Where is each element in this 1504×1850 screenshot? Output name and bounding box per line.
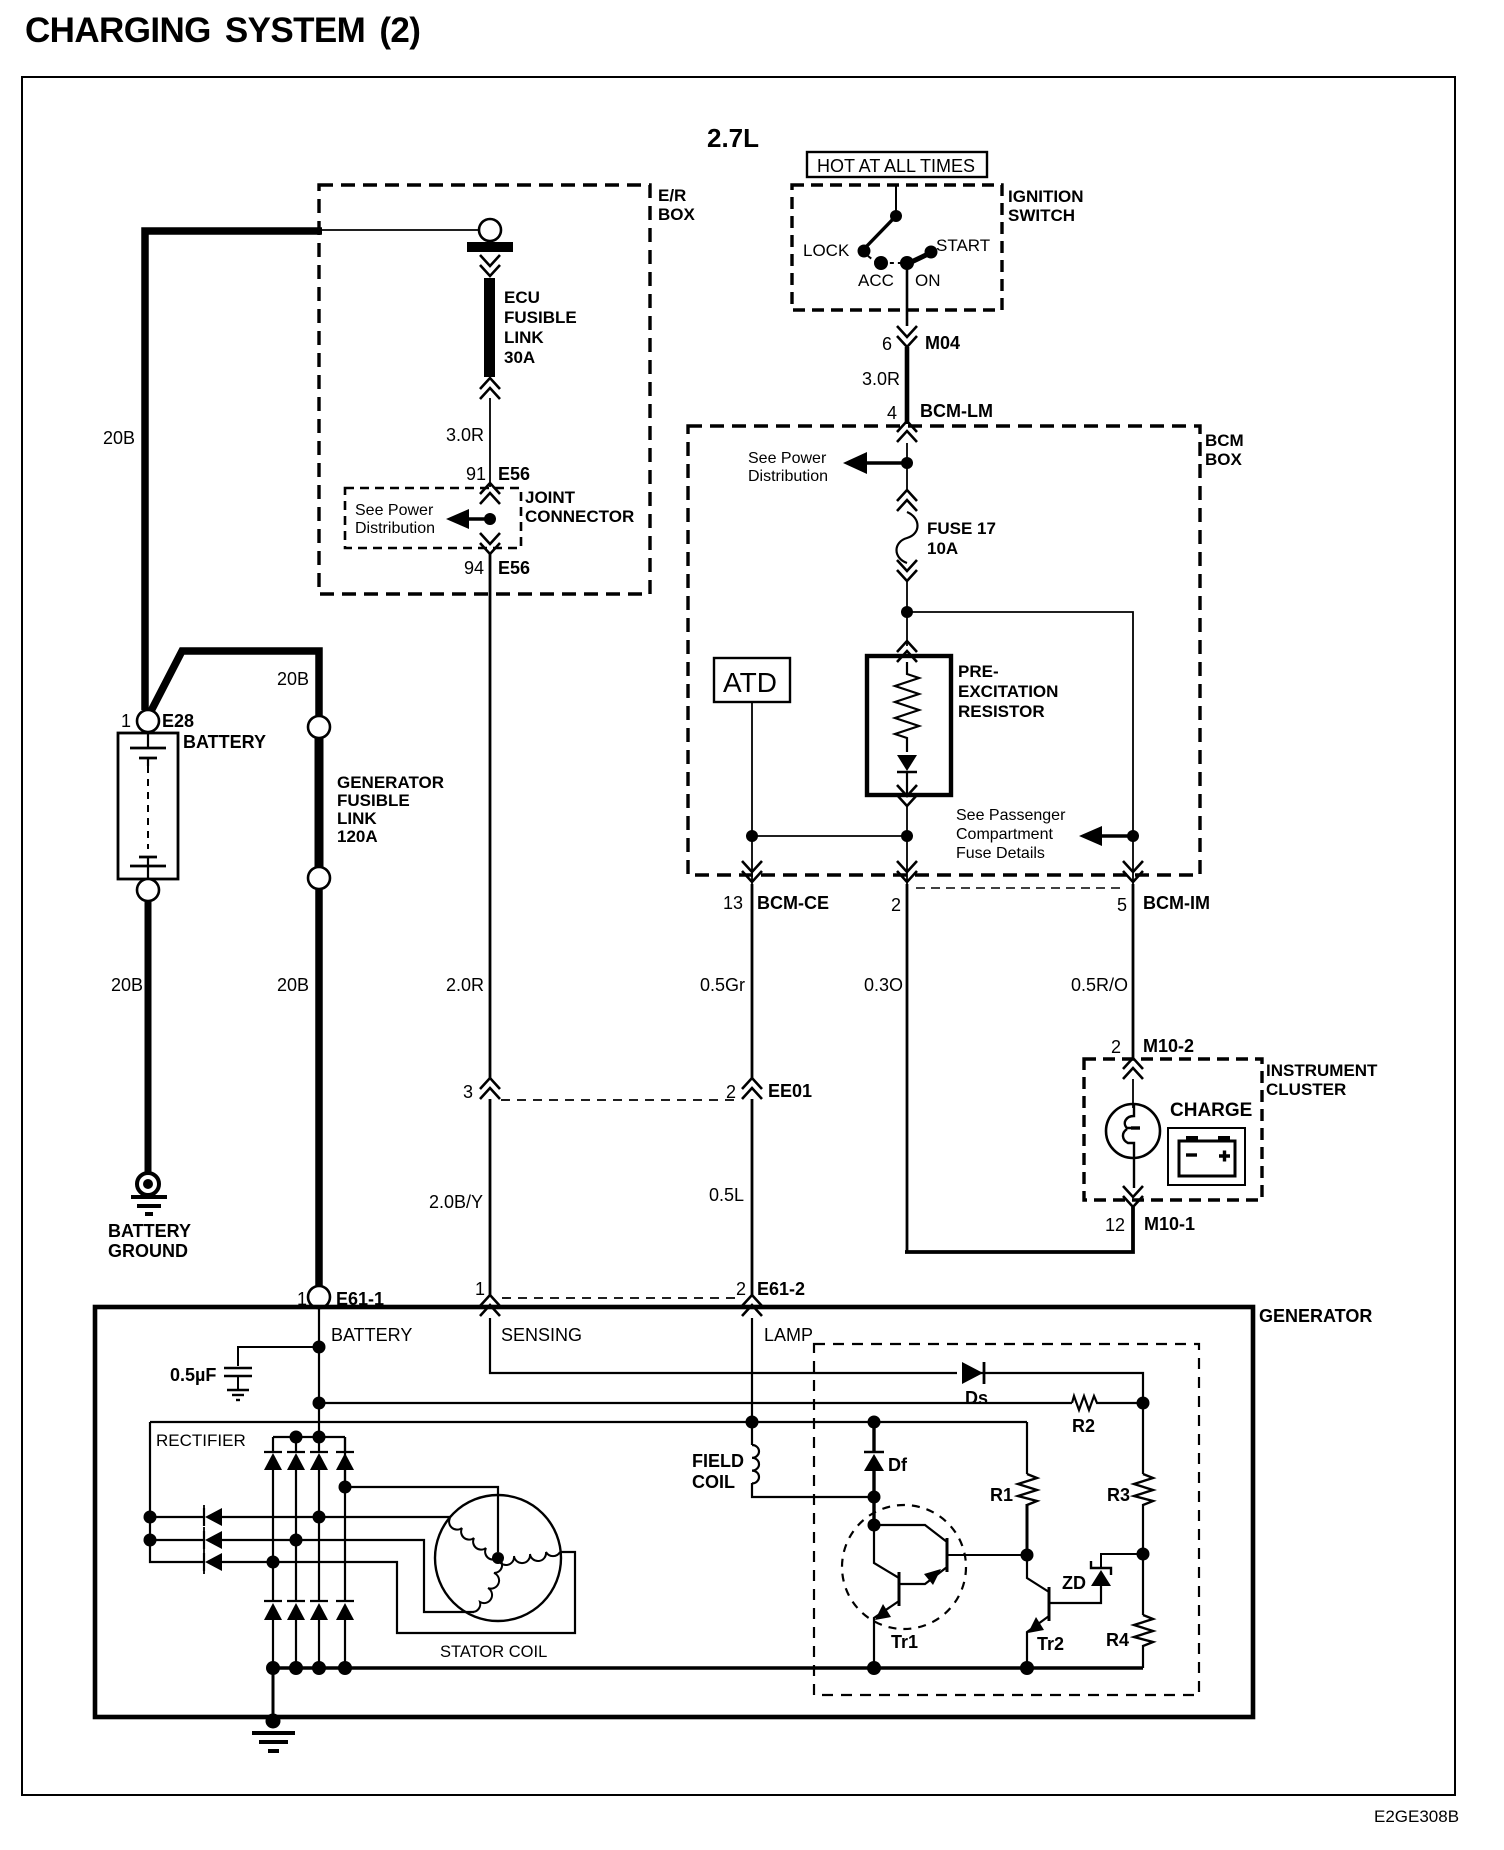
wire 3.0R M04 to BCM-LM (med thick): [905, 347, 910, 424]
svg-text:See Passenger: See Passenger: [956, 807, 1066, 824]
svg-text:BCM-IM: BCM-IM: [1143, 893, 1210, 913]
wire Tr1 base to R1: [947, 1554, 1028, 1556]
wire 2.0R E56 to sensing: [489, 554, 492, 1078]
zener diode ZD: [1091, 1570, 1111, 1586]
wire 3.0R in E/R box: [489, 398, 491, 487]
phase row 1: [150, 1516, 451, 1518]
arrow to see passenger text: [1101, 834, 1133, 838]
wire ATD to node: [751, 702, 753, 842]
svg-text:13: 13: [723, 893, 743, 913]
wire branch to BCM-IM: [907, 612, 1133, 836]
rectifier left wire: [150, 1422, 204, 1562]
resistor element: [895, 662, 919, 752]
svg-text:120A: 120A: [337, 827, 378, 846]
wire 0.3O pin2 down: [906, 884, 909, 1253]
fuse bar: [467, 242, 513, 252]
svg-text:ZD: ZD: [1062, 1573, 1086, 1593]
joint connector box (dashed): [345, 488, 521, 548]
ignition switch box (dashed): [792, 185, 1002, 310]
svg-text:HOT AT ALL TIMES: HOT AT ALL TIMES: [817, 156, 975, 176]
svg-text:JOINT: JOINT: [525, 488, 576, 507]
node lamp-field junction: [746, 1416, 759, 1429]
svg-text:2.7L: 2.7L: [707, 123, 759, 153]
svg-text:E/R: E/R: [658, 186, 686, 205]
node battery capacitor junction: [313, 1341, 326, 1354]
svg-text:LINK: LINK: [337, 809, 377, 828]
svg-text:ACC: ACC: [858, 271, 894, 290]
connector E61-1 pin 1: [308, 1286, 330, 1308]
ECU fusible link 30A (thick bar): [484, 278, 495, 377]
svg-text:FUSE 17: FUSE 17: [927, 519, 996, 538]
svg-text:RESISTOR: RESISTOR: [958, 702, 1045, 721]
generator fusible link terminal bottom: [308, 867, 330, 889]
svg-text:CLUSTER: CLUSTER: [1266, 1080, 1346, 1099]
wire lamp pin down: [751, 1318, 753, 1445]
connector chevrons 91: [480, 483, 500, 504]
wire battery pin into generator: [318, 1308, 320, 1440]
svg-text:0.3O: 0.3O: [864, 975, 903, 995]
svg-text:BATTERY: BATTERY: [183, 732, 266, 752]
svg-text:IGNITION: IGNITION: [1008, 187, 1084, 206]
svg-text:E56: E56: [498, 558, 530, 578]
wire R2 to node: [1099, 1402, 1143, 1404]
stator center node: [492, 1552, 504, 1564]
svg-text:E61-2: E61-2: [757, 1279, 805, 1299]
connector chevrons below resistor: [897, 785, 917, 806]
svg-text:E2GE308B: E2GE308B: [1374, 1807, 1459, 1826]
rectifier columns: [273, 1470, 345, 1602]
wire 0.5R/O BCM-IM to M10-2: [1132, 884, 1135, 1058]
svg-text:0.5µF: 0.5µF: [170, 1365, 216, 1385]
transistor Tr2: [1027, 1555, 1101, 1662]
wire exciter line: [150, 1421, 1027, 1423]
wire 2.0B/Y sensing lower: [489, 1099, 492, 1297]
svg-text:BCM: BCM: [1205, 431, 1244, 450]
connector chevrons below bar: [480, 255, 500, 276]
BCM box (dashed): [688, 426, 1200, 875]
svg-text:Distribution: Distribution: [748, 468, 828, 485]
node field coil bottom: [868, 1491, 881, 1504]
battery ground symbol: [131, 1173, 167, 1214]
svg-text:3: 3: [463, 1082, 473, 1102]
stator winding up-left: [449, 1518, 498, 1560]
node rect left row2: [144, 1534, 157, 1547]
ignition switch feed wire: [895, 186, 897, 216]
resistor R1: [1026, 1422, 1028, 1474]
connector chevrons 94: [480, 533, 500, 554]
node rect left row1: [144, 1511, 157, 1524]
svg-text:M10-2: M10-2: [1143, 1036, 1194, 1056]
connector M10-1 pin 12: [1123, 1186, 1143, 1207]
svg-text:Compartment: Compartment: [956, 826, 1053, 843]
diode Df: [872, 1422, 875, 1452]
node R3/R4/ZD: [1137, 1548, 1150, 1561]
terminal circle E/R: [479, 219, 501, 241]
svg-text:94: 94: [464, 558, 484, 578]
wire node to BCM-CE pin: [751, 836, 753, 886]
svg-text:CHARGING SYSTEM (2): CHARGING SYSTEM (2): [25, 11, 420, 50]
svg-text:2: 2: [891, 895, 901, 915]
rectifier upper diodes: [264, 1437, 354, 1453]
wire Ds to R3 column: [980, 1373, 1143, 1403]
generator box: [95, 1307, 1253, 1717]
generator fusible link 120A (thick bar): [315, 738, 324, 867]
stator winding down-left: [473, 1558, 502, 1612]
wire fuse to junction: [906, 581, 908, 614]
svg-text:2.0R: 2.0R: [446, 975, 484, 995]
regulator ground bus: [273, 1666, 1143, 1669]
wire 0.5Gr BCM-CE to EE01: [751, 884, 754, 1078]
battery box: [118, 733, 178, 879]
battery plates: [130, 732, 166, 879]
field coil: [752, 1445, 759, 1483]
node resistor output: [901, 830, 913, 842]
svg-text:BATTERY: BATTERY: [331, 1325, 412, 1345]
phase row 3: [222, 1552, 575, 1633]
svg-text:5: 5: [1117, 895, 1127, 915]
wire M10-1 return: [905, 1207, 1133, 1252]
svg-text:4: 4: [887, 403, 897, 423]
svg-text:R3: R3: [1107, 1485, 1130, 1505]
svg-text:30A: 30A: [504, 348, 535, 367]
wire junction to pre-excitation resistor: [906, 612, 908, 646]
svg-text:Tr2: Tr2: [1037, 1634, 1064, 1654]
svg-text:START: START: [936, 236, 990, 255]
node BCM-IM branch: [1127, 830, 1139, 842]
svg-text:Df: Df: [888, 1455, 908, 1475]
wire node to node at 836: [752, 835, 907, 837]
resistor R2: [1072, 1396, 1099, 1410]
svg-text:M04: M04: [925, 333, 960, 353]
wire node to BCM-IM pin: [1132, 836, 1134, 886]
svg-text:GROUND: GROUND: [108, 1241, 188, 1261]
wire to charge lamp: [1132, 1079, 1134, 1108]
svg-text:3.0R: 3.0R: [862, 369, 900, 389]
svg-text:20B: 20B: [111, 975, 143, 995]
svg-text:GENERATOR: GENERATOR: [337, 773, 444, 792]
svg-text:20B: 20B: [277, 669, 309, 689]
svg-text:2: 2: [726, 1082, 736, 1102]
svg-text:Ds: Ds: [965, 1388, 988, 1408]
svg-text:BATTERY: BATTERY: [108, 1221, 191, 1241]
fuse 17 10A: [897, 490, 917, 511]
svg-text:Distribution: Distribution: [355, 520, 435, 537]
charge lamp: [1106, 1104, 1160, 1158]
svg-text:INSTRUMENT: INSTRUMENT: [1266, 1061, 1378, 1080]
svg-text:0.5L: 0.5L: [709, 1185, 744, 1205]
node fuse output: [901, 606, 913, 618]
E/R box (dashed): [319, 185, 650, 594]
rectifier left diodes: [203, 1505, 205, 1574]
svg-text:E56: E56: [498, 464, 530, 484]
node Df top: [868, 1416, 881, 1429]
svg-text:BOX: BOX: [658, 205, 696, 224]
wire BCM-LM into box: [906, 443, 908, 490]
svg-text:COIL: COIL: [692, 1472, 735, 1492]
rectifier top bus: [273, 1436, 345, 1438]
node Ds/R2/R3: [1137, 1397, 1150, 1410]
phase row 2: [150, 1540, 474, 1612]
battery bottom terminal: [137, 879, 159, 901]
stator winding right: [498, 1552, 560, 1565]
node ACC: [874, 256, 888, 270]
svg-text:BOX: BOX: [1205, 450, 1243, 469]
connector BCM-IM pin 5: [1123, 861, 1143, 882]
wire 20B battery to ground (thick): [145, 901, 152, 1173]
svg-text:12: 12: [1105, 1215, 1125, 1235]
generator fusible link terminal top: [308, 716, 330, 738]
svg-text:ON: ON: [915, 271, 941, 290]
svg-text:2.0B/Y: 2.0B/Y: [429, 1192, 483, 1212]
svg-text:Tr1: Tr1: [891, 1632, 918, 1652]
node BCM feed: [901, 457, 913, 469]
resistor R4: [1142, 1554, 1144, 1615]
resistor R3: [1142, 1403, 1144, 1474]
svg-text:20B: 20B: [277, 975, 309, 995]
svg-text:1: 1: [475, 1279, 485, 1299]
svg-text:91: 91: [466, 464, 486, 484]
diode Ds: [962, 1362, 983, 1384]
svg-text:LINK: LINK: [504, 328, 544, 347]
battery icon box: [1168, 1128, 1245, 1185]
svg-text:10A: 10A: [927, 539, 958, 558]
node Tr2 emitter bus: [1020, 1661, 1034, 1675]
node ATD junction: [746, 830, 758, 842]
svg-text:LAMP: LAMP: [764, 1325, 813, 1345]
svg-text:R4: R4: [1106, 1630, 1129, 1650]
svg-text:20B: 20B: [103, 428, 135, 448]
svg-text:FUSIBLE: FUSIBLE: [504, 308, 577, 327]
svg-text:R1: R1: [990, 1485, 1013, 1505]
dashed detent arc LOCK-ACC-ON: [868, 256, 901, 263]
svg-text:M10-1: M10-1: [1144, 1214, 1195, 1234]
node START: [925, 246, 938, 259]
ATD box: [714, 658, 790, 702]
wire resistor to node: [906, 806, 908, 842]
wire 20B link to generator (thick): [315, 889, 323, 1288]
node Tr1 emitter bus: [867, 1661, 881, 1675]
capacitor 0.5uF: [238, 1347, 319, 1366]
arrow to see power distribution BCM: [866, 461, 907, 465]
svg-text:2: 2: [736, 1279, 746, 1299]
instrument cluster box (dashed): [1084, 1059, 1262, 1200]
svg-text:SENSING: SENSING: [501, 1325, 582, 1345]
svg-text:PRE-: PRE-: [958, 662, 999, 681]
svg-text:Fuse Details: Fuse Details: [956, 845, 1045, 862]
svg-text:CHARGE: CHARGE: [1170, 1100, 1252, 1121]
node joint connector: [484, 513, 496, 525]
svg-text:CONNECTOR: CONNECTOR: [525, 507, 634, 526]
svg-text:SWITCH: SWITCH: [1008, 206, 1075, 225]
wire 20B battery to E/R box (thick): [145, 230, 479, 710]
voltage regulator box (dashed): [814, 1344, 1199, 1695]
svg-text:0.5Gr: 0.5Gr: [700, 975, 745, 995]
svg-text:0.5R/O: 0.5R/O: [1071, 975, 1128, 995]
svg-text:ECU: ECU: [504, 288, 540, 307]
connector BCM-CE pin 13: [742, 861, 762, 882]
ON-START blade (thick): [907, 253, 930, 264]
wire ON to M04: [906, 263, 909, 326]
wire battery bus to R2: [319, 1402, 1072, 1404]
svg-text:GENERATOR: GENERATOR: [1259, 1306, 1372, 1326]
node Tr1 collector: [868, 1519, 881, 1532]
svg-text:3.0R: 3.0R: [446, 425, 484, 445]
node R1/Tr2: [1021, 1549, 1034, 1562]
svg-text:6: 6: [882, 334, 892, 354]
node ON: [900, 256, 914, 270]
svg-text:RECTIFIER: RECTIFIER: [156, 1431, 246, 1450]
stator feed from col4: [345, 1437, 498, 1552]
wire sensing to Ds line: [490, 1318, 957, 1373]
svg-text:FUSIBLE: FUSIBLE: [337, 791, 410, 810]
battery icon: [1179, 1141, 1235, 1176]
node battery-R2 junction: [313, 1397, 326, 1410]
ignition switch blade: [864, 216, 896, 249]
svg-text:BCM-LM: BCM-LM: [920, 401, 993, 421]
pre-excitation resistor box: [867, 656, 951, 795]
svg-text:1: 1: [121, 711, 131, 731]
node LOCK: [858, 245, 871, 258]
rectifier bottom bus nodes: [266, 1661, 280, 1675]
wire 0.5L EE01 to E61-2: [751, 1099, 754, 1297]
HOT AT ALL TIMES box: [807, 152, 987, 177]
svg-text:See Power: See Power: [748, 450, 827, 467]
stator coil circle: [435, 1495, 561, 1621]
dashed connector line E61: [502, 1297, 740, 1299]
arrow to see power distribution: [468, 517, 492, 521]
connector chevrons above link: [480, 378, 500, 399]
rectifier lower diodes: [264, 1600, 354, 1602]
svg-text:LOCK: LOCK: [803, 241, 850, 260]
svg-text:E28: E28: [162, 711, 194, 731]
wire node to pin 2: [906, 836, 908, 886]
svg-text:EE01: EE01: [768, 1081, 812, 1101]
thin dashed connector line: [916, 887, 1124, 889]
svg-text:2: 2: [1111, 1037, 1121, 1057]
svg-text:STATOR COIL: STATOR COIL: [440, 1643, 547, 1661]
svg-text:EXCITATION: EXCITATION: [958, 682, 1058, 701]
connector E28 pin 1: [137, 710, 159, 732]
connector pin 2: [897, 861, 917, 882]
svg-text:ATD: ATD: [723, 667, 777, 698]
wire 20B to battery E28 (thick diagonal): [150, 651, 319, 718]
diode in pre-excitation resistor: [897, 755, 917, 771]
svg-text:FIELD: FIELD: [692, 1451, 744, 1471]
transistor Tr1 (darlington, dashed circle): [842, 1505, 966, 1629]
svg-text:R2: R2: [1072, 1416, 1095, 1436]
generator ground: [272, 1668, 275, 1722]
svg-text:BCM-CE: BCM-CE: [757, 893, 829, 913]
svg-text:See Power: See Power: [355, 502, 434, 519]
